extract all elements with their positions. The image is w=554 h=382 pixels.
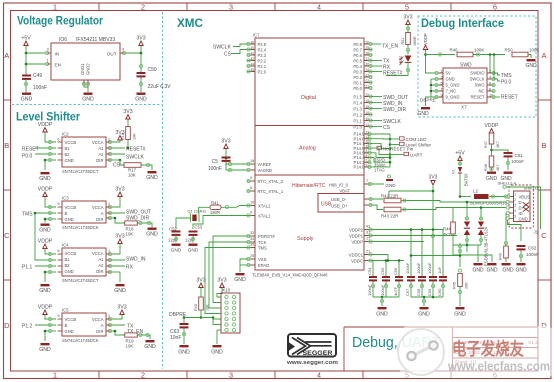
svg-text:P2.2: P2.2 — [258, 58, 267, 63]
svg-text:GND: GND — [211, 350, 223, 356]
USB connector X1 shell — [498, 181, 539, 235]
resistor R48 4K7 — [484, 156, 500, 171]
supply 3V3 for IC3 right — [115, 187, 124, 197]
IC7 pins VDDP2 VDDP1 VDDP — [349, 225, 372, 245]
IC7 section label Supply — [297, 236, 314, 242]
IC7 pins VAREF VAGND — [247, 159, 272, 173]
resistor R18 10K — [114, 217, 152, 237]
svg-text:GND: GND — [418, 312, 430, 318]
wire VDDP rail — [424, 50, 455, 74]
IC7 USB sub box — [318, 194, 364, 213]
supply 3V3 for IC4 right — [115, 234, 124, 244]
svg-text:Digital: Digital — [301, 95, 316, 101]
svg-text:5V: 5V — [446, 71, 451, 76]
svg-text:VCCB: VCCB — [65, 140, 77, 145]
connector X7 SWD header — [435, 63, 495, 110]
svg-text:EN: EN — [55, 63, 61, 68]
svg-text:12pF: 12pF — [168, 238, 178, 243]
svg-text:C55: C55 — [380, 267, 385, 275]
svg-text:100nF: 100nF — [405, 262, 410, 274]
svg-text:2: 2 — [141, 371, 145, 380]
ground below IC6 — [82, 93, 94, 103]
svg-text:5_GND: 5_GND — [446, 83, 460, 88]
level shifter IC5 SN74LVC1T45DCK — [58, 308, 111, 344]
svg-text:8: 8 — [250, 186, 252, 190]
svg-text:TMS: TMS — [258, 246, 267, 251]
pull-up resistor R16 — [121, 109, 137, 149]
svg-text:GND: GND — [39, 228, 51, 234]
svg-text:17: 17 — [366, 237, 370, 241]
connector X10 — [221, 288, 240, 334]
microcontroller IC7 XMC4200 main outline — [252, 33, 364, 278]
svg-text:NC: NC — [478, 89, 484, 94]
svg-text:2: 2 — [514, 198, 516, 202]
wire X7 RESET net — [495, 96, 500, 98]
level shifter IC3 SN74LVC1T45DCK — [58, 196, 111, 231]
svg-text:TCK: TCK — [258, 240, 267, 245]
svg-text:18: 18 — [250, 159, 254, 163]
wire XTAL1 to C53 — [193, 216, 247, 230]
svg-text:A1: A1 — [98, 257, 104, 262]
svg-text:Debug Interface: Debug Interface — [421, 16, 504, 30]
svg-text:Hibernate/RTC: Hibernate/RTC — [292, 183, 326, 189]
svg-text:A: A — [101, 211, 104, 216]
net flag No RESET Pin — [377, 146, 414, 151]
svg-text:GND: GND — [39, 347, 51, 353]
resistor R19 10K — [114, 330, 150, 349]
svg-text:IC5: IC5 — [62, 308, 69, 313]
IC7 pins PORST# TCK TMS — [247, 231, 276, 251]
wire CS net at IC7 — [372, 125, 391, 131]
svg-text:4K7: 4K7 — [496, 141, 500, 148]
svg-text:SN74LVC2T45DCT: SN74LVC2T45DCT — [62, 278, 99, 283]
svg-text:CS: CS — [383, 125, 391, 131]
ground below C50 — [135, 93, 147, 103]
wire CS to P2.4 — [224, 50, 247, 58]
IC7 Digital/Analog divider — [255, 125, 364, 127]
net label DBPRE debug — [420, 98, 436, 103]
svg-text:www.elecfans.com: www.elecfans.com — [447, 360, 550, 374]
svg-text:XTAL2: XTAL2 — [258, 204, 271, 209]
svg-text:1TAG: 1TAG — [374, 168, 385, 173]
svg-text:21: 21 — [366, 250, 370, 254]
ground below R45 — [454, 307, 466, 318]
svg-text:20K: 20K — [465, 282, 469, 289]
svg-text:A: A — [101, 323, 104, 328]
svg-text:SWDIO: SWDIO — [470, 71, 485, 76]
svg-text:IC3: IC3 — [62, 196, 69, 201]
ground right of R50 — [525, 59, 537, 69]
wire VBUS net — [459, 195, 508, 198]
svg-text:OUT: OUT — [107, 52, 117, 57]
svg-text:RX: RX — [126, 265, 134, 271]
svg-text:ESD8V0L3B-4TL624: ESD8V0L3B-4TL624 — [484, 226, 489, 266]
svg-text:B: B — [65, 211, 68, 216]
supply 3V3 at R51 — [403, 15, 412, 25]
supply 3V3 regulator output — [136, 36, 145, 46]
title text Debug, UART — [352, 335, 440, 351]
svg-text:5: 5 — [405, 3, 409, 12]
svg-text:1: 1 — [53, 3, 57, 12]
svg-text:3: 3 — [229, 3, 233, 12]
wire SWD_IN net at IC7 — [372, 101, 403, 107]
svg-text:7: 7 — [366, 179, 368, 183]
wire LED1 to RESET# net — [386, 63, 410, 76]
IC2 pin stubs — [58, 142, 111, 160]
svg-text:1: 1 — [47, 59, 49, 63]
IC7 pins VDDC1 VDDC — [349, 250, 372, 264]
ground below ESD bus — [472, 263, 484, 274]
svg-text:C49: C49 — [33, 73, 42, 79]
svg-text:L2: L2 — [473, 189, 478, 194]
svg-text:10K: 10K — [133, 133, 137, 140]
watermark overlay — [398, 326, 554, 378]
wire 3V3 to C50 — [139, 46, 142, 73]
IC7 pins P14.9-P14.0 — [354, 130, 372, 169]
Debug Interface dashed section box — [418, 16, 536, 117]
frame row letters right — [541, 51, 547, 330]
svg-text:EPAD: EPAD — [258, 263, 269, 268]
svg-text:1uF: 1uF — [437, 267, 442, 274]
svg-text:Analog: Analog — [299, 146, 316, 152]
frame column numbers top — [53, 3, 497, 12]
resistor R44 4K7 — [443, 208, 455, 246]
svg-text:IC4: IC4 — [62, 243, 69, 248]
crystal Q1 12MHz — [188, 209, 207, 223]
supply +5V — [21, 36, 31, 46]
wire VDDC supply bus — [372, 255, 404, 277]
wire TX_EN net — [372, 44, 399, 50]
svg-text:100nF: 100nF — [511, 159, 524, 164]
IC7 pins RTC_XTAL_2 RTC_XTAL_1 — [247, 176, 284, 194]
net label SWD_DIR — [126, 216, 149, 222]
IC6 ground pins — [82, 80, 89, 92]
wire crystal to C52 — [176, 218, 191, 229]
IC6 pin stubs — [47, 53, 125, 85]
svg-text:9: 9 — [250, 211, 252, 215]
wire DBPRE to X10 — [201, 316, 221, 324]
svg-text:GND1: GND1 — [80, 63, 85, 75]
wire analog flag bus — [371, 134, 391, 167]
ground right of R17 — [146, 171, 158, 181]
svg-text:P0.1: P0.1 — [353, 80, 362, 85]
svg-text:VAGND: VAGND — [258, 168, 273, 173]
svg-text:9: 9 — [250, 176, 252, 180]
IC5 pin stubs — [58, 319, 111, 331]
svg-text:GND: GND — [39, 176, 51, 182]
supply VDDP for IC3 — [38, 187, 53, 197]
svg-text:34: 34 — [250, 237, 254, 241]
wire SWD_DIR net at IC7 — [372, 107, 406, 113]
ground below C63 — [178, 345, 190, 356]
wire +5V to IN/EN — [25, 46, 49, 76]
frame row ticks right — [538, 100, 551, 280]
frame column numbers bottom — [53, 371, 497, 380]
svg-text:SHIELD: SHIELD — [524, 186, 539, 191]
IC7 pins P0.8-P0.0 — [353, 40, 372, 91]
wires IC2 right pins — [106, 140, 125, 162]
svg-text:CS: CS — [224, 52, 232, 58]
net label P0.0 debug — [501, 80, 512, 86]
wire RESET# net — [372, 71, 403, 77]
svg-text:C59: C59 — [427, 288, 432, 296]
wire VDDP supply bus — [372, 228, 457, 276]
svg-text:3V3: 3V3 — [136, 36, 145, 42]
section title Debug Interface — [421, 16, 504, 30]
ESD protection diode array — [464, 217, 489, 266]
supply 3V3 at R40 — [196, 278, 205, 288]
section divider horizontal dotted line under Voltage Regulator — [12, 104, 163, 106]
watermark chinese text — [452, 339, 524, 359]
svg-text:B2: B2 — [65, 263, 71, 268]
svg-text:USB_D-: USB_D- — [331, 197, 347, 202]
capacitor C49 — [22, 73, 47, 92]
svg-text:SEGGER: SEGGER — [303, 350, 333, 357]
IC4 pin stubs — [58, 254, 111, 272]
svg-text:GND: GND — [146, 232, 158, 238]
svg-text:6: 6 — [58, 138, 60, 142]
wire XTAL2 to crystal — [199, 207, 210, 213]
svg-text:10K: 10K — [126, 232, 134, 237]
svg-text:SWO: SWO — [474, 83, 485, 88]
svg-text:VDDC: VDDC — [351, 259, 363, 264]
resistor R49 — [499, 240, 509, 262]
svg-text:H08_IO_0: H08_IO_0 — [329, 183, 349, 188]
ground below R49 — [502, 263, 514, 274]
svg-text:GND: GND — [454, 312, 466, 318]
svg-text:GND: GND — [519, 217, 528, 222]
svg-text:5: 5 — [514, 215, 516, 219]
capacitor C5 100nF — [208, 157, 247, 173]
inductor L2 BLM41PG600 — [470, 189, 507, 206]
svg-text:GND: GND — [21, 97, 33, 103]
svg-text:C54: C54 — [367, 267, 372, 275]
ground below IC4 left — [39, 284, 51, 294]
net label SWD_IN — [126, 257, 146, 263]
svg-text:P1.1: P1.1 — [353, 118, 362, 123]
svg-text:GND: GND — [144, 344, 156, 350]
svg-text:B1: B1 — [65, 257, 71, 262]
section divider vertical dotted line — [162, 12, 164, 369]
svg-text:P0.3: P0.3 — [353, 69, 362, 74]
title block outline — [344, 327, 538, 371]
svg-text:SN74LVC2T45DCT: SN74LVC2T45DCT — [62, 169, 99, 174]
svg-text:C50: C50 — [148, 67, 157, 73]
svg-text:7_NC: 7_NC — [446, 89, 457, 94]
wires USB data to ESD — [466, 201, 483, 220]
svg-text:A2: A2 — [98, 263, 104, 268]
supply 3V3 at X10 — [217, 278, 227, 298]
IC3 pin stubs — [58, 207, 111, 219]
resistor R51 680R — [401, 25, 417, 55]
svg-text:P2.4: P2.4 — [258, 47, 267, 52]
svg-text:SWD_IN: SWD_IN — [126, 257, 146, 263]
ground below IC2 left — [39, 172, 51, 182]
net label RX — [126, 265, 134, 271]
IC7 Analog/Hibernate divider — [255, 174, 364, 176]
svg-text:CS: CS — [113, 163, 121, 169]
resistor R40 10K — [194, 288, 210, 318]
svg-text:GND: GND — [65, 217, 74, 222]
svg-text:VDDP: VDDP — [351, 240, 363, 245]
svg-text:GND: GND — [376, 312, 388, 318]
svg-text:B1: B1 — [65, 146, 71, 151]
svg-text:P0.5: P0.5 — [353, 58, 362, 63]
svg-text:Q1 12MHz: Q1 12MHz — [188, 209, 207, 214]
svg-text:GND: GND — [234, 277, 246, 283]
svg-text:D-: D- — [519, 200, 524, 205]
svg-text:12pF: 12pF — [185, 238, 195, 243]
svg-text:SN74LVC1T45DCK: SN74LVC1T45DCK — [62, 225, 99, 230]
svg-text:GND: GND — [525, 63, 537, 69]
svg-text:25: 25 — [250, 254, 254, 258]
svg-text:V1: V1 — [452, 169, 456, 174]
svg-text:PORST#: PORST# — [258, 234, 275, 239]
svg-text:P1.2: P1.2 — [353, 112, 362, 117]
svg-text:IN: IN — [55, 52, 60, 57]
svg-text:TMS: TMS — [22, 212, 33, 218]
svg-text:P1.3: P1.3 — [353, 106, 362, 111]
wires IC5 right pins — [106, 315, 125, 333]
wire RX net — [372, 65, 391, 71]
svg-text:R51: R51 — [401, 38, 405, 45]
svg-text:10nF: 10nF — [170, 335, 181, 341]
IC7 section label Digital — [301, 95, 316, 101]
frame column ticks bottom — [99, 371, 451, 379]
svg-text:UART: UART — [410, 152, 423, 157]
resistor R42 22R — [364, 194, 506, 203]
SEGGER logo — [286, 334, 338, 366]
net label TMS at IC3 — [22, 212, 33, 218]
net label SWCLK for IC2 — [126, 155, 144, 161]
svg-text:+5V: +5V — [21, 36, 31, 42]
svg-text:GND: GND — [417, 111, 429, 117]
svg-text:R47: R47 — [484, 141, 488, 148]
svg-text:R40: R40 — [194, 304, 198, 311]
svg-text:3V3: 3V3 — [429, 175, 438, 181]
svg-text:P0.6: P0.6 — [353, 53, 362, 58]
frame row letters left — [4, 51, 10, 330]
svg-text:Supply: Supply — [297, 236, 314, 242]
svg-text:31: 31 — [366, 231, 370, 235]
IC7 pins H08_IO_0 VBAT — [329, 179, 384, 194]
svg-text:VCCB: VCCB — [65, 317, 77, 322]
svg-text:BLM41PG600SN1D: BLM41PG600SN1D — [470, 201, 507, 206]
net flag COM LED — [390, 137, 427, 142]
svg-text:22uF 6.3V: 22uF 6.3V — [148, 84, 172, 90]
capacitor C58 100nF — [416, 262, 426, 297]
svg-text:4: 4 — [317, 3, 321, 12]
svg-text:100nF: 100nF — [526, 252, 539, 257]
svg-text:ID: ID — [519, 211, 523, 216]
net label CS for IC2 — [113, 163, 121, 169]
svg-text:3: 3 — [47, 48, 49, 52]
wires IC3 left pins — [35, 197, 56, 223]
wires IC5 left pins — [35, 315, 56, 342]
svg-text:C53: C53 — [195, 225, 203, 230]
wires X7 left pins to ground — [426, 79, 436, 106]
net label RESET# — [126, 147, 146, 153]
net label DBPRE bottom — [169, 312, 202, 319]
svg-text:10K: 10K — [126, 344, 134, 349]
ground below IC4 right — [114, 284, 126, 294]
svg-text:GND: GND — [515, 268, 527, 274]
svg-text:RESET#: RESET# — [126, 147, 146, 153]
resistor R46 100K — [450, 48, 506, 57]
IC7 pins XTAL2 XTAL1 — [247, 201, 271, 219]
section title XMC — [177, 16, 203, 30]
resistor R47 4K7 — [484, 133, 500, 156]
svg-text:A: A — [541, 51, 546, 60]
svg-text:C5: C5 — [212, 159, 219, 165]
svg-text:RESET: RESET — [22, 147, 39, 153]
svg-text:43: 43 — [366, 225, 370, 229]
svg-text:GND: GND — [146, 175, 158, 181]
svg-text:RESET: RESET — [501, 95, 518, 101]
capacitor C56 4u7F — [393, 267, 403, 297]
capacitor C63 10nF — [170, 318, 189, 345]
svg-text:Voltage Regulator: Voltage Regulator — [17, 14, 103, 28]
svg-text:6: 6 — [58, 202, 60, 206]
svg-text:GND: GND — [486, 268, 498, 274]
wire SWD_OUT net at IC7 — [372, 95, 408, 101]
svg-text:P1.4: P1.4 — [353, 100, 362, 105]
svg-text:6: 6 — [58, 314, 60, 318]
svg-text:4: 4 — [122, 48, 124, 52]
svg-text:4u7F: 4u7F — [393, 286, 398, 296]
svg-text:32: 32 — [250, 231, 254, 235]
svg-text:A2: A2 — [98, 152, 104, 157]
wire SWCLK net at IC7 — [372, 119, 401, 125]
svg-text:B: B — [541, 141, 546, 150]
svg-text:P1.5: P1.5 — [353, 94, 362, 99]
svg-text:P2.5: P2.5 — [258, 42, 267, 47]
svg-text:IC2: IC2 — [62, 132, 69, 137]
svg-text:C56: C56 — [393, 267, 398, 275]
svg-text:DIR: DIR — [96, 329, 103, 334]
ground below cap group2 — [418, 307, 430, 318]
svg-text:R16: R16 — [121, 133, 125, 140]
svg-text:DIR: DIR — [96, 158, 103, 163]
capacitor C50 — [137, 67, 172, 92]
svg-text:RTC_XTAL_2: RTC_XTAL_2 — [258, 179, 284, 184]
supply +5V at V1 — [455, 151, 465, 161]
svg-text:No RESET Pin: No RESET Pin — [383, 146, 414, 151]
net label TX_EN — [127, 329, 144, 335]
svg-text:VBUS: VBUS — [519, 195, 531, 200]
svg-text:GND: GND — [65, 329, 74, 334]
svg-text:IFX54211 MBV33: IFX54211 MBV33 — [76, 37, 115, 43]
svg-text:P0.0: P0.0 — [22, 154, 33, 160]
svg-text:VCCA: VCCA — [92, 205, 104, 210]
svg-text:VCCB: VCCB — [65, 251, 77, 256]
svg-text:100K: 100K — [474, 48, 484, 53]
LED1 — [399, 56, 412, 66]
svg-text:4: 4 — [317, 371, 321, 380]
svg-text:B2: B2 — [65, 152, 71, 157]
svg-text:R48: R48 — [484, 164, 488, 171]
svg-text:X10: X10 — [222, 288, 231, 293]
wires IC2 left pins — [35, 132, 56, 170]
ground right of R19 — [144, 340, 156, 350]
svg-text:www.segger.com: www.segger.com — [286, 360, 338, 366]
frame row ticks left — [4, 100, 11, 280]
svg-text:P0.2: P0.2 — [353, 75, 362, 80]
svg-text:6: 6 — [58, 249, 60, 253]
svg-text:9_GND: 9_GND — [446, 95, 460, 100]
svg-text:680R: 680R — [413, 36, 417, 45]
svg-text:TX_EN: TX_EN — [382, 44, 399, 50]
